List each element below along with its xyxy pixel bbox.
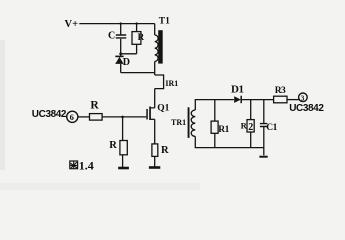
current loop IR1: [155, 75, 164, 89]
svg-text:R: R: [109, 140, 117, 151]
wire C1 branch upper: [263, 100, 265, 124]
wire pin6 to R: [78, 116, 89, 118]
resistor R1 box: [211, 121, 218, 133]
svg-text:V+: V+: [65, 19, 79, 30]
svg-text:UC3842: UC3842: [32, 109, 67, 120]
svg-text:6: 6: [70, 112, 74, 122]
wire R3 to pin3: [287, 99, 299, 101]
ground left: [118, 167, 129, 170]
wire snubber join: [121, 53, 137, 55]
caption figure 1.4 box glyph: [70, 161, 78, 169]
transformer TR1 secondary winding: [191, 110, 195, 136]
wire gate pulldown branch: [122, 117, 124, 141]
transformer T1 core: [158, 30, 163, 63]
ground sense: [149, 166, 160, 169]
wire R snubber lower: [136, 44, 138, 54]
pin 3 circle: [299, 93, 308, 102]
svg-text:R1: R1: [218, 125, 229, 135]
resistor R2 box: [247, 120, 254, 132]
transistor Q1 gate bar: [146, 109, 148, 119]
wire C1 branch lower: [263, 127, 265, 148]
wire drain lead: [151, 89, 155, 108]
transformer TR1 core: [188, 107, 190, 138]
pin 6 circle: [67, 111, 78, 122]
resistor R gate box: [90, 114, 103, 121]
transistor Q1 channel bar: [149, 107, 151, 121]
junction gate branch: [121, 116, 124, 119]
wire diode to drain node: [121, 64, 155, 73]
wire R1 branch upper: [214, 100, 216, 122]
junction C top: [120, 22, 122, 24]
wire C branch lower: [120, 39, 122, 54]
ground output: [259, 156, 267, 158]
junction R top: [135, 22, 137, 24]
resistor R sense box: [152, 144, 158, 157]
wire top rail: [79, 23, 154, 25]
svg-text:C1: C1: [266, 123, 277, 133]
diode D: [120, 54, 122, 56]
svg-text:R3: R3: [275, 86, 286, 96]
wire R snubber upper: [136, 24, 138, 32]
wire C branch upper: [120, 24, 122, 35]
svg-text:R: R: [161, 145, 169, 156]
wire pulldown to ground: [122, 155, 124, 168]
svg-text:IR1: IR1: [165, 79, 178, 88]
wire R2 branch upper: [250, 100, 252, 120]
wire gate line: [102, 116, 146, 118]
svg-text:3: 3: [301, 94, 305, 102]
svg-text:Q1: Q1: [157, 103, 169, 113]
svg-text:D: D: [123, 57, 130, 68]
wire sense to ground: [154, 156, 156, 166]
transformer T1 primary lead: [154, 24, 156, 35]
transformer T1 primary winding: [155, 35, 158, 61]
scan smudge left edge: [0, 40, 5, 170]
junction snubber: [119, 52, 122, 55]
svg-text:1.4: 1.4: [79, 158, 94, 172]
resistor R snubber box: [132, 32, 141, 45]
wire after D1: [242, 99, 274, 101]
wire R2 branch lower: [250, 132, 252, 148]
wire secondary top lead: [195, 100, 234, 110]
capacitor C: [116, 35, 126, 38]
wire source lead: [154, 119, 156, 144]
resistor R pulldown box: [120, 141, 127, 155]
svg-text:R: R: [138, 32, 145, 42]
wire R1 branch lower: [214, 133, 216, 147]
svg-text:C: C: [108, 31, 115, 42]
diode D1: [234, 96, 241, 103]
svg-text:R: R: [90, 100, 99, 112]
capacitor C1: [260, 124, 268, 127]
wire bottom rail: [195, 147, 264, 149]
svg-text:UC3842: UC3842: [289, 103, 324, 114]
svg-text:2: 2: [248, 122, 253, 133]
transistor Q1 source stub: [151, 118, 155, 120]
svg-text:T1: T1: [159, 17, 170, 27]
svg-text:D1: D1: [231, 84, 243, 96]
wire to output ground: [263, 148, 265, 156]
transformer T1 primary lead lower: [154, 61, 156, 75]
wire secondary bottom lead: [194, 136, 196, 147]
scan smudge bottom edge: [0, 183, 200, 190]
svg-text:TR1: TR1: [171, 118, 186, 127]
resistor R3 box: [274, 96, 287, 103]
